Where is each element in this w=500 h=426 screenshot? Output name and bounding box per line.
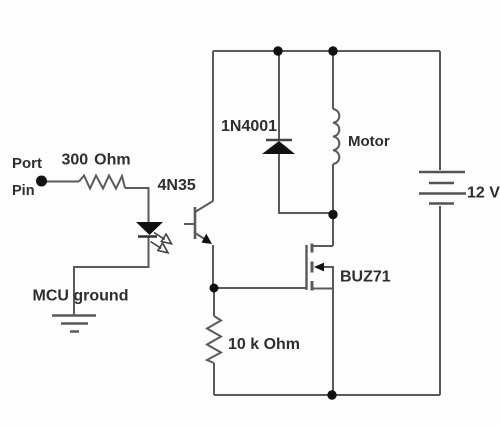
mosfet body arrow [314,263,324,272]
wire resistor2 to bottom rail [213,363,215,395]
node top rail diode [273,46,282,55]
svg-text:Pin: Pin [12,183,35,199]
node bottom rail source [327,390,336,399]
svg-text:4N35: 4N35 [158,177,196,194]
wire diode top [278,51,280,140]
inductor Motor coil [333,109,339,164]
wire bottom rail [214,394,440,396]
svg-text:300 Ohm: 300 Ohm [62,152,131,169]
light arrows [151,233,172,253]
node junction gate [210,284,219,293]
resistor R2 10 k Ohm [207,316,221,363]
wire LED cathode to ground [74,236,149,315]
wire top rail [213,50,440,52]
svg-text:BUZ71: BUZ71 [340,269,391,286]
wire collector riser [212,51,214,201]
wire battery top [439,51,441,170]
node diode-motor junction [328,210,337,219]
LED D1 (optocoupler emitter) [136,222,163,237]
wire gate lead [214,287,306,289]
transistor Q2 BUZ71 MOSFET [307,244,334,291]
emitter arrow [202,234,213,244]
svg-text:Port: Port [12,155,42,172]
svg-text:1N4001: 1N4001 [221,118,277,135]
wire battery bottom [439,206,441,395]
wire diode bottom [279,154,333,213]
battery BT1 12V [419,172,466,204]
node top rail motor [328,46,337,55]
svg-text:MCU ground: MCU ground [33,288,129,305]
wire resistor to LED [125,188,149,222]
wire emitter drop [212,245,214,288]
wire port to resistor [46,181,79,183]
svg-text:10 k Ohm: 10 k Ohm [228,336,300,353]
wire node to resistor2 [213,288,215,316]
svg-text:Motor: Motor [348,133,390,150]
ground MCU [52,316,96,332]
wire motor bottom to drain [332,164,334,246]
wire motor top [332,51,334,109]
diode D2 1N4001 [262,140,295,154]
node Port Pin terminal [36,176,47,187]
wire source drop [332,288,334,395]
svg-text:12 V: 12 V [467,185,500,202]
resistor R1 300 Ohm [79,176,125,189]
transistor Q1 4N35 phototransistor [184,201,213,241]
